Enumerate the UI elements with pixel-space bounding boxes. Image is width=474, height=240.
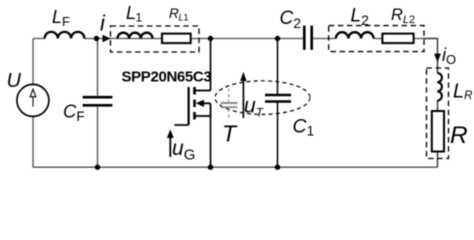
capacitor C1: [265, 95, 291, 102]
wire C1 branch: [277, 39, 279, 168]
capacitor CF: [83, 97, 113, 105]
parasitic capacitor gray: [221, 89, 238, 121]
wire left rail: [32, 39, 34, 168]
node C1 junction dot top: [275, 36, 280, 41]
svg-text:U: U: [7, 70, 22, 92]
node C1 junction dot bottom: [275, 165, 280, 170]
svg-text:uT: uT: [244, 95, 265, 120]
node source junction dot bottom: [208, 165, 213, 170]
transistor T MOSFET: [174, 39, 210, 168]
svg-text:L2: L2: [351, 6, 370, 29]
resistor R load: [432, 111, 444, 152]
gate voltage arrow uG: [167, 129, 174, 157]
svg-text:SPP20N65C3: SPP20N65C3: [122, 69, 212, 86]
wire bottom rail: [33, 166, 438, 168]
dashed ellipse uT region: [215, 81, 310, 115]
node drain junction dot top: [208, 36, 213, 41]
svg-text:uG: uG: [172, 137, 195, 164]
inductor L2: [336, 32, 374, 38]
node i junction dot: [94, 36, 99, 41]
resistor RL2: [382, 34, 413, 44]
svg-text:L1: L1: [126, 3, 143, 25]
capacitor C2: [304, 26, 311, 50]
wire output branch: [424, 39, 438, 168]
dashed box load: [427, 68, 449, 159]
svg-text:CF: CF: [63, 101, 85, 125]
voltage arrow uT: [240, 72, 246, 118]
inductor L1: [118, 33, 153, 39]
svg-text:C1: C1: [293, 116, 315, 139]
wire CF branch: [97, 39, 99, 168]
current arrow iO: [434, 54, 441, 63]
svg-text:RL1: RL1: [169, 6, 188, 23]
svg-text:C2: C2: [280, 8, 302, 31]
svg-text:RL2: RL2: [391, 6, 415, 26]
svg-text:LF: LF: [52, 7, 70, 29]
source U: [17, 84, 49, 116]
svg-text:i: i: [100, 11, 106, 36]
current arrow i: [103, 35, 111, 43]
inductor LR: [437, 73, 442, 101]
wire top rail: [33, 38, 424, 40]
node CF junction dot bottom: [95, 165, 100, 170]
dashed box L1 RL1: [111, 26, 200, 52]
svg-text:LR: LR: [453, 81, 472, 103]
svg-text:T: T: [222, 121, 238, 147]
svg-text:iO: iO: [442, 45, 456, 67]
dashed box L2 RL2: [329, 26, 424, 52]
inductor LF: [45, 32, 85, 39]
svg-text:R: R: [450, 122, 468, 149]
resistor RL1: [162, 34, 191, 44]
